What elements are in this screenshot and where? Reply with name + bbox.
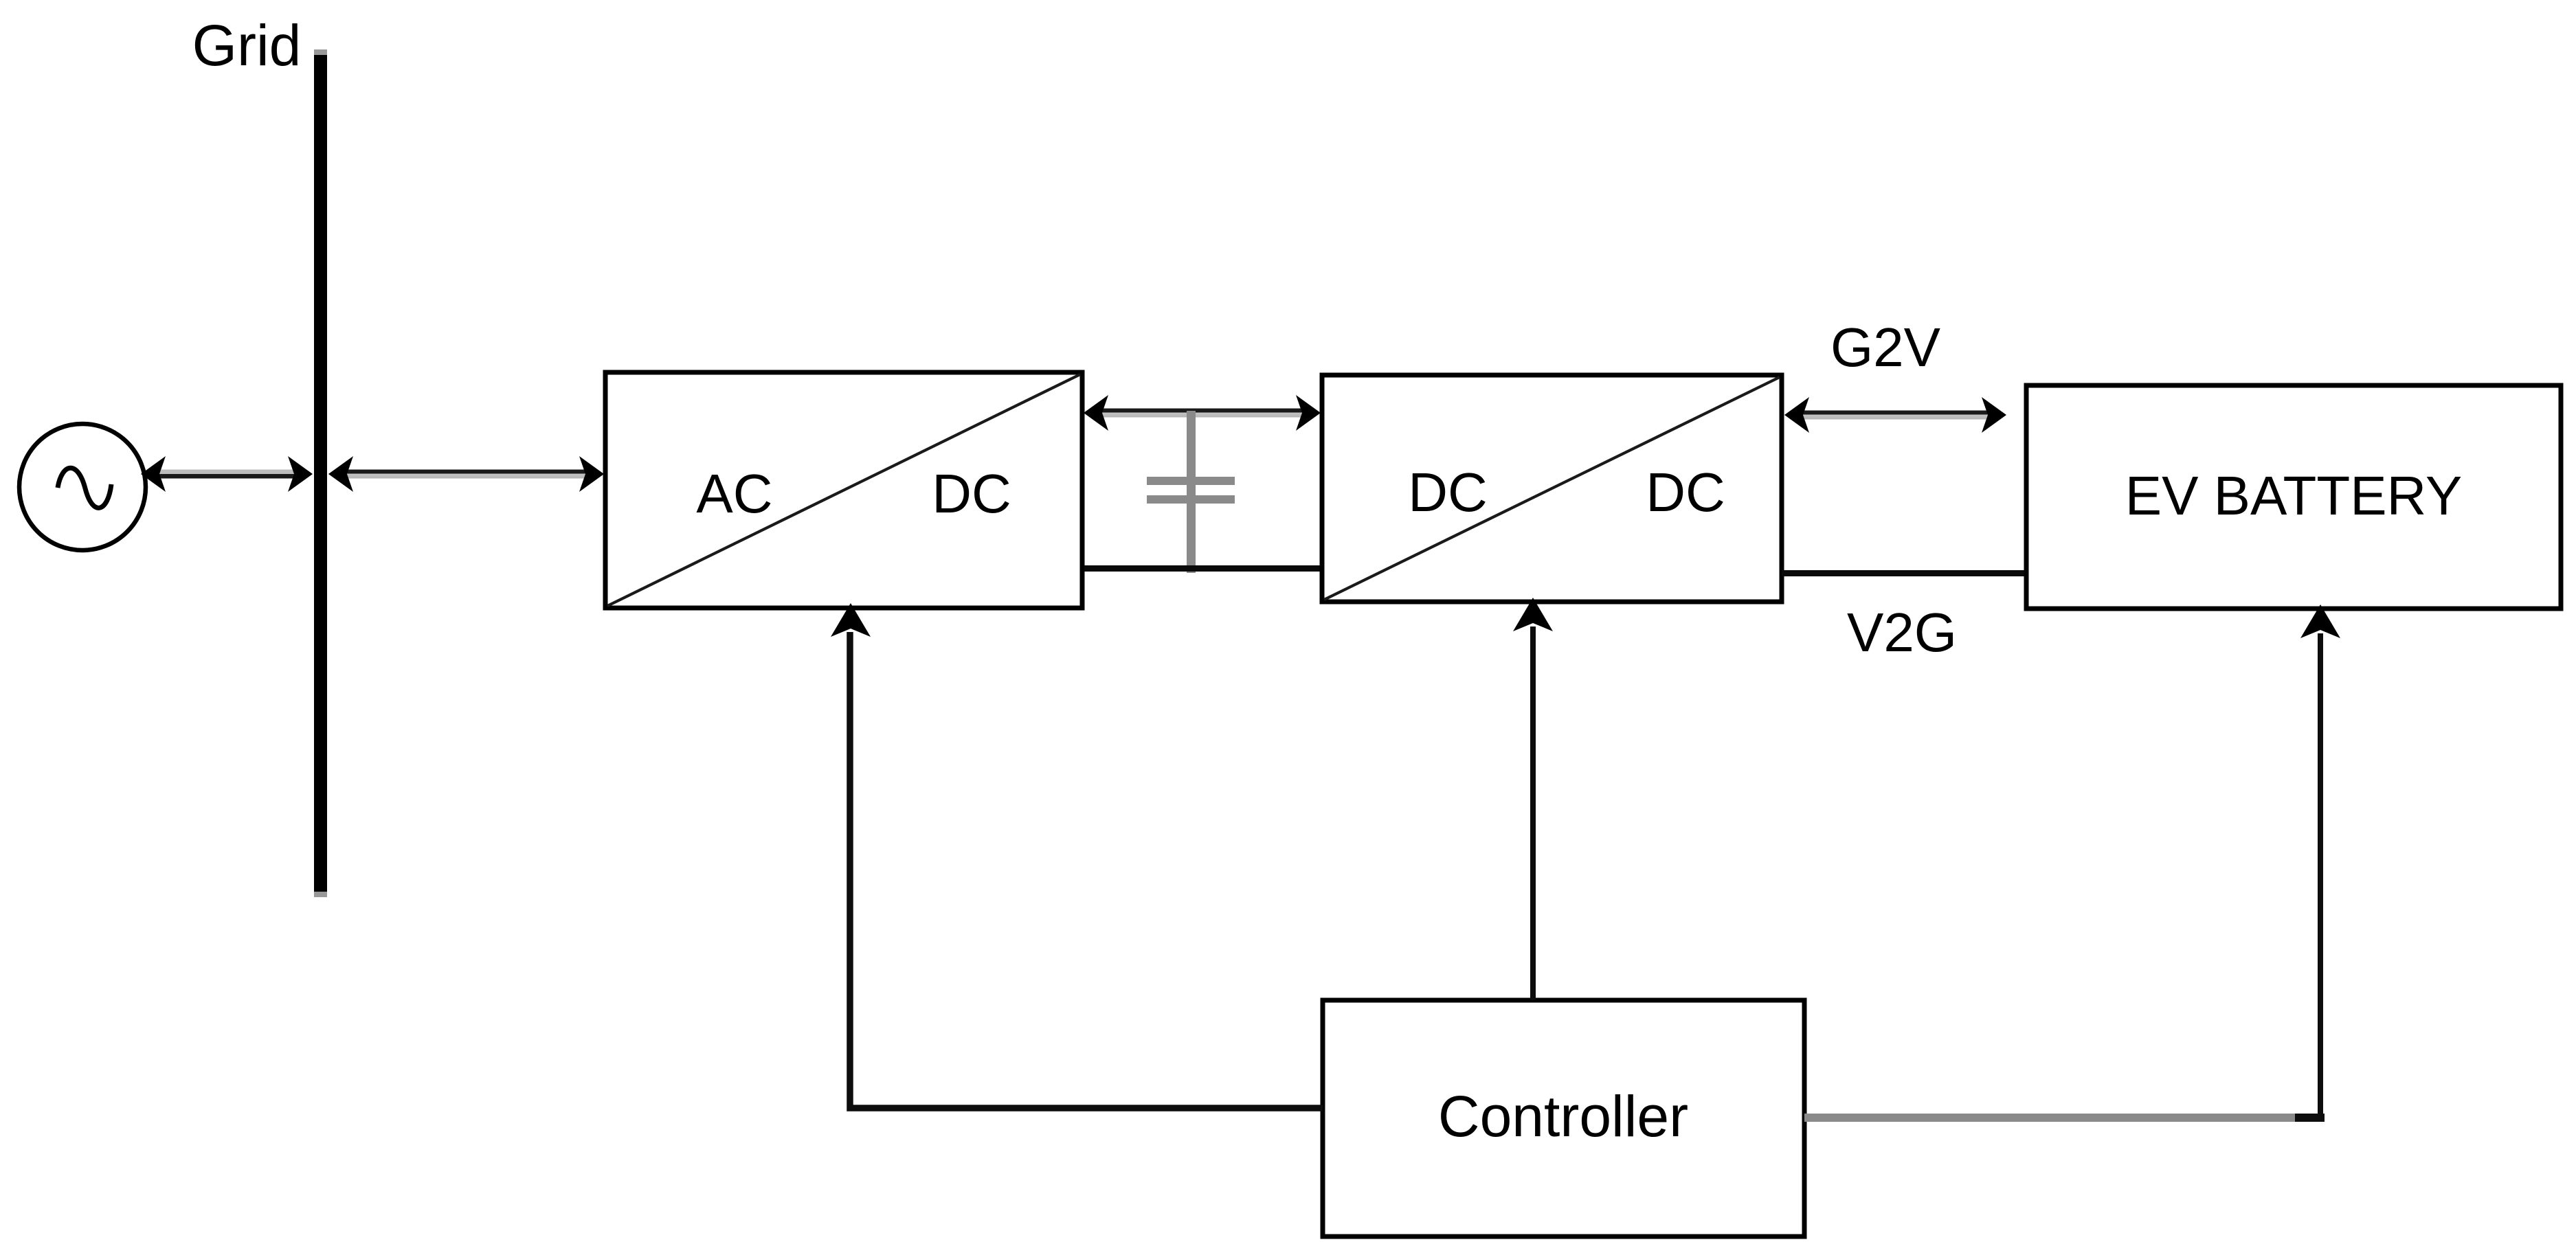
svg-text:AC: AC [696,463,772,524]
G2V arrow [1784,397,2006,433]
grid bus bar [314,49,327,897]
capacitor C1 lead [1187,411,1196,573]
control wire to EV battery [1804,605,2340,1122]
svg-text:EV BATTERY: EV BATTERY [2125,465,2463,526]
wire arrow grid bar to AC/DC converter [328,456,604,492]
svg-text:Controller: Controller [1438,1084,1688,1149]
control wire to U1 AC/DC [831,603,1323,1108]
svg-text:G2V: G2V [1830,317,1941,378]
EV battery box [2026,385,2561,609]
svg-text:Grid: Grid [192,13,302,78]
svg-text:V2G: V2G [1847,602,1957,663]
V2G wire [1782,570,2026,576]
controller box [1323,1000,1804,1237]
AC source G1 [19,424,146,550]
converter U1 AC/DC box [605,372,1082,608]
wire arrow source to grid bar [141,456,313,492]
DC link arrow [1084,395,1321,431]
svg-text:DC: DC [1408,462,1488,523]
U1 diagonal [607,374,1080,606]
svg-text:DC: DC [1646,462,1725,523]
converter U2 DC/DC box [1322,375,1782,602]
control wire to U2 DC/DC [1513,598,1553,1000]
wire DC link bottom [1084,565,1322,572]
U2 diagonal [1324,377,1780,600]
capacitor C1 plates [1147,477,1235,504]
svg-text:DC: DC [932,463,1011,524]
